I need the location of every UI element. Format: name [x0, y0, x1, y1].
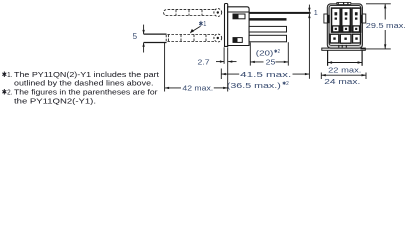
dimension 25 and (20)*2 — [250, 42, 288, 66]
svg-text:(36.5 max.): (36.5 max.) — [227, 81, 281, 90]
svg-text:29.5 max.: 29.5 max. — [366, 21, 406, 30]
svg-text:The figures in the parentheses: The figures in the parentheses are for — [14, 88, 158, 97]
svg-text:2.7: 2.7 — [198, 57, 210, 66]
svg-text:The PY11QN(2)-Y1 includes the: The PY11QN(2)-Y1 includes the part — [14, 70, 160, 79]
dashed eyelet ring top — [214, 9, 222, 17]
front view outer shell — [327, 4, 362, 48]
dimension 2.7 — [198, 47, 237, 66]
svg-text:✱2: ✱2 — [282, 81, 289, 87]
front view inner shell — [329, 6, 361, 46]
label *1 with leader arrow — [190, 19, 207, 34]
footnote line 1 — [2, 70, 160, 79]
footnote line 3 — [2, 88, 158, 97]
socket body (side view) — [228, 7, 249, 46]
svg-text:outlined by the dashed lines a: outlined by the dashed lines above. — [14, 79, 154, 88]
svg-text:(20): (20) — [256, 48, 273, 57]
svg-text:25: 25 — [266, 57, 276, 66]
dashed blade top (included part) — [164, 10, 215, 16]
bottom square middle — [340, 34, 351, 43]
bottom inner ticks — [339, 45, 347, 48]
svg-text:22 max.: 22 max. — [328, 65, 361, 74]
keyway 1 — [233, 14, 245, 19]
mounting plate strip (side view) — [225, 4, 228, 47]
svg-text:24 max.: 24 max. — [324, 77, 360, 86]
right ear — [360, 14, 366, 23]
svg-text:✱2: ✱2 — [274, 49, 280, 55]
bottom square right — [353, 34, 361, 43]
body internal line — [228, 11, 249, 13]
dimension 24 max — [321, 73, 366, 86]
dashed eyelet ring bottom — [214, 34, 222, 42]
svg-text:1: 1 — [314, 8, 318, 17]
dimension 29.5 max — [361, 4, 406, 49]
left ear — [324, 14, 330, 23]
dimension 41.5 max and (36.5 max)*2 — [221, 69, 309, 90]
terminal tab 4 (hollow) — [249, 35, 286, 42]
slot 2 — [342, 8, 351, 32]
keyway 2 — [233, 38, 242, 43]
dimension 22 max — [328, 51, 363, 75]
svg-text:5: 5 — [133, 32, 138, 41]
slot 3 — [352, 8, 361, 32]
svg-text:41.5 max.: 41.5 max. — [240, 70, 291, 79]
svg-text:✱1.: ✱1. — [2, 70, 13, 79]
dimension 42 max — [165, 43, 228, 93]
svg-text:the PY11QN2(-Y1).: the PY11QN2(-Y1). — [14, 96, 96, 105]
svg-text:✱2.: ✱2. — [2, 88, 13, 97]
front view base flange — [322, 48, 366, 50]
terminal tab 3 (hollow) — [249, 26, 286, 32]
dashed blade bottom (included part) — [166, 35, 214, 42]
terminal tab 1 (solid) — [249, 12, 310, 14]
top notch with ticks — [337, 2, 351, 5]
bottom square left — [330, 34, 339, 43]
svg-text:42 max.: 42 max. — [182, 83, 213, 92]
terminal tab 2 (solid) — [249, 18, 286, 21]
dimension 5 — [133, 25, 167, 53]
slot 1 — [332, 8, 341, 32]
dimension 1 (tab thickness) — [308, 5, 318, 79]
